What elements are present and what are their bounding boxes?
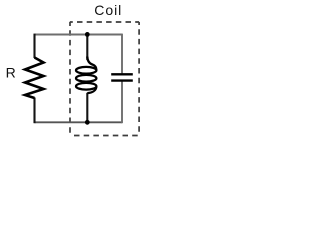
wire: capacitor lower lead bbox=[121, 82, 123, 124]
wire: right vertical (capacitor branch) bbox=[121, 34, 123, 74]
dashed box left edge bbox=[69, 22, 71, 136]
inductor upper lead bbox=[86, 35, 88, 61]
inductor coil body bbox=[76, 57, 96, 94]
wire: bottom horizontal bbox=[35, 121, 123, 123]
dashed box bottom edge bbox=[70, 135, 139, 137]
capacitor bottom plate bbox=[111, 79, 133, 81]
dashed box top edge bbox=[70, 21, 139, 23]
dashed box right edge bbox=[138, 22, 140, 136]
svg-text:Coil: Coil bbox=[94, 2, 122, 18]
resistor R zigzag body bbox=[25, 58, 44, 99]
wire: top horizontal bbox=[35, 34, 123, 36]
resistor R lower lead bbox=[33, 98, 35, 124]
dashed enclosure box (Coil) bbox=[70, 22, 139, 136]
junction node top bbox=[85, 32, 90, 37]
resistor R upper lead bbox=[33, 34, 35, 58]
junction node bottom bbox=[85, 120, 90, 125]
inductor lower lead bbox=[86, 93, 88, 123]
svg-text:R: R bbox=[6, 65, 16, 81]
capacitor top plate bbox=[111, 73, 133, 75]
